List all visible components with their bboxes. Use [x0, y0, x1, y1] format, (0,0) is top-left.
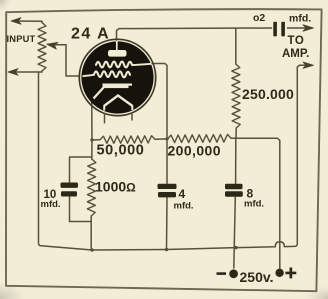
- minus sign: [217, 272, 227, 275]
- svg-text:o2: o2: [253, 12, 265, 24]
- grid lead inside tube: [83, 75, 95, 76]
- wire: input top lead from potentiometer to arrow: [14, 21, 42, 23]
- capacitor C2 10 mfd: [61, 183, 79, 197]
- wire: wiper arm to grid of tube: [51, 45, 80, 76]
- junction: screen lead at divider bus: [165, 137, 168, 140]
- potentiometer R1 (input volume control): [38, 23, 46, 72]
- resistor R4 250,000 ohm plate load: [232, 64, 240, 128]
- heater filament: [104, 96, 133, 107]
- tube black interior: [81, 41, 153, 113]
- wire: mid bus from cathode junction, 50,000 ohm resistor R2: [92, 139, 100, 141]
- capacitor C1 0.2 mfd coupling: [273, 22, 285, 37]
- wire: input bottom lead with arrow: [11, 71, 42, 72]
- svg-text:TO: TO: [288, 35, 305, 47]
- grid cap: [108, 50, 127, 57]
- plus sign: [285, 268, 296, 279]
- svg-text:250.000: 250.000: [242, 86, 294, 102]
- arrow: signal output to amp: [303, 25, 314, 31]
- wire: screen grid lead to divider junction: [152, 64, 167, 139]
- svg-text:AMP.: AMP.: [282, 48, 309, 60]
- wiper arrow: [47, 42, 58, 49]
- svg-text:mfd.: mfd.: [289, 13, 311, 25]
- wire: 8 mfd bottom lead to minus terminal: [234, 197, 236, 268]
- wire: grid cap lead and plate coupling wire to capacitor: [117, 28, 272, 40]
- screen lead inside tube: [132, 64, 152, 65]
- svg-text:200,000: 200,000: [168, 143, 221, 159]
- wire: R4 bottom to bus: [235, 128, 237, 139]
- svg-text:250v.: 250v.: [240, 269, 274, 285]
- heater leg leads: [104, 113, 106, 124]
- wire: coupling capacitor to amp arrow: [288, 27, 309, 29]
- svg-text:1000Ω: 1000Ω: [95, 179, 136, 195]
- svg-text:4: 4: [179, 187, 186, 201]
- svg-text:mfd.: mfd.: [174, 201, 194, 212]
- svg-text:50,000: 50,000: [97, 143, 145, 159]
- arrow: ground output to amp: [303, 62, 314, 68]
- junction: minus lead at ground bus: [234, 246, 237, 249]
- input terminal arrow top: [11, 18, 21, 25]
- wire: top lead of 250,000 resistor: [235, 28, 237, 64]
- svg-text:24 A: 24 A: [71, 26, 110, 43]
- wire: cathode lead down: [91, 100, 93, 140]
- wire: 4 mfd bottom lead: [166, 198, 169, 250]
- junction: 4 mfd lead at ground bus: [165, 248, 168, 251]
- wire: between R2 and R3: [155, 138, 168, 140]
- battery plus terminal dot: [275, 269, 283, 277]
- tube V1 type 24A: [79, 39, 155, 123]
- wire: 8 mfd top lead: [235, 139, 237, 184]
- wire: 4 mfd top lead: [166, 139, 168, 184]
- svg-text:INPUT: INPUT: [7, 34, 36, 44]
- wire: bus from R3 to right corner: [231, 138, 280, 268]
- screen grid wavy element: [94, 71, 130, 77]
- svg-text:mfd.: mfd.: [41, 199, 61, 210]
- control grid wavy element: [96, 62, 132, 68]
- wire: ground bus left side and bottom with hop over B+ lead: [39, 67, 298, 250]
- wire: cathode node segments: [91, 140, 93, 159]
- capacitor C4 8 mfd: [225, 184, 243, 197]
- wire: branch to 10 mfd capacitor: [70, 157, 92, 182]
- svg-text:mfd.: mfd.: [244, 199, 264, 210]
- plate bar: [103, 84, 129, 89]
- cathode diagonal lead: [94, 88, 104, 99]
- wire: ground lead to amp arrow: [297, 65, 308, 67]
- wire: 10 mfd bottom lead: [70, 197, 91, 222]
- battery minus terminal dot: [229, 269, 238, 278]
- input terminal arrow bottom: [8, 69, 18, 76]
- capacitor C3 4 mfd: [158, 184, 177, 198]
- junction: cathode node at divider bus: [90, 138, 93, 141]
- resistor R5 1000 ohm cathode bias: [87, 159, 96, 216]
- tube envelope: [79, 39, 155, 115]
- resistor R3 200,000 ohm: [168, 134, 232, 142]
- junction: bias resistor at ground bus: [90, 248, 93, 251]
